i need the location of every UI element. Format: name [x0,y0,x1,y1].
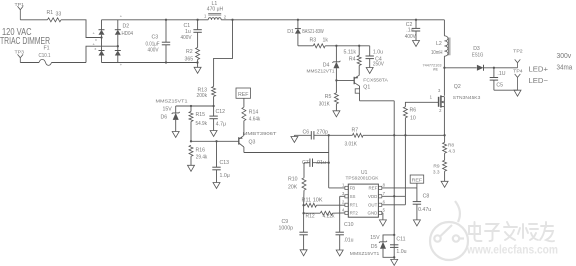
svg-text:HD04: HD04 [122,31,134,37]
ground C8 [413,220,420,226]
svg-text:F1: F1 [44,45,50,51]
svg-text:29.4k: 29.4k [196,155,208,161]
capacitor C6 270p [294,130,328,140]
svg-text:4.64k: 4.64k [249,117,261,123]
fuse F1 C10.1 [20,45,86,65]
svg-text:LED+: LED+ [529,65,549,74]
svg-text:R12: R12 [306,213,315,219]
zener D6 MMSZ15VT1 15V [156,98,189,131]
svg-text:10mH: 10mH [431,50,443,56]
svg-text:TRIAC DIMMER: TRIAC DIMMER [0,36,50,47]
wire FB vertical [328,135,330,188]
svg-text:D1: D1 [287,29,294,35]
svg-text:WE: WE [433,67,438,71]
svg-text:.01u: .01u [344,237,354,243]
ground R5 [333,111,340,117]
resistor R6 10 [403,102,438,121]
svg-text:RT2: RT2 [350,210,359,215]
watermark logo elecfans [430,201,468,260]
resistor R1 33 [47,10,62,22]
svg-text:C5: C5 [496,83,503,89]
net flag REF left [236,88,251,98]
capacitor C9 1000p [279,205,308,250]
transistor Q1 FCX558TA [336,75,388,101]
svg-text:400V: 400V [405,34,416,40]
svg-text:BAS21-83W: BAS21-83W [302,29,324,35]
ground R9 [441,181,448,187]
svg-text:3.01K: 3.01K [345,141,358,147]
ground C6 [291,135,298,142]
svg-text:Q2: Q2 [454,84,461,90]
svg-text:MMBT3906T: MMBT3906T [243,131,277,136]
ground C9 [300,250,307,256]
resistor R8 4.3 [443,135,456,160]
transistor Q3 MMBT3906T [239,131,277,153]
svg-text:x: x [95,47,97,51]
resistor R10 20K [288,163,306,206]
svg-text:D6: D6 [161,114,168,120]
capacitor C2 .1u 400V [405,20,420,41]
svg-text:C11: C11 [396,236,405,242]
label 120 VAC TRIAC DIMMER [0,27,50,47]
svg-text:MMSZ12VT1: MMSZ12VT1 [307,69,335,74]
svg-text:TPS92001DGK: TPS92001DGK [346,175,380,180]
svg-text:4.22k: 4.22k [323,214,335,220]
node rail 15V zener [176,105,215,107]
IC U1 TPS92001DGK [342,170,386,217]
svg-text:R1: R1 [47,10,54,16]
ground U1 GND [379,220,386,226]
svg-text:0.01μF: 0.01μF [146,41,160,47]
svg-text:200k: 200k [197,93,208,99]
svg-text:D3: D3 [473,46,480,52]
svg-text:300v: 300v [557,51,572,60]
test point TP1 [15,2,25,20]
svg-text:REF: REF [412,178,423,184]
wire VDD rail down to C11 [393,101,395,257]
svg-text:1k: 1k [323,37,329,43]
resistor R13 200k [197,87,216,107]
svg-text:R7: R7 [352,128,359,134]
test point TP2 [513,48,523,67]
zener D4 MMSZ12VT1 [307,46,341,82]
ground C2 [413,41,420,47]
resistor R16 29.4k [189,145,208,165]
capacitor C1 1u 400V [181,20,202,48]
wire FB to U1 [329,187,345,189]
svg-text:34ma: 34ma [557,62,574,71]
wire top rail corner down to L2 [443,20,445,36]
ground C11 [391,259,398,265]
svg-text:D4: D4 [323,63,330,69]
svg-text:SS: SS [350,194,356,199]
resistor R5 301K [319,80,339,110]
svg-text:15V: 15V [370,235,380,241]
svg-text:D2: D2 [123,23,130,29]
ground C4 [366,68,373,74]
inductor L2 10mH 744772103 WE [423,36,450,72]
svg-text:1000p: 1000p [279,226,294,232]
test point TP4 and ground [513,69,523,97]
diode D1 BAS21-83W [287,20,323,46]
inductor L1 470uH [204,1,227,20]
diode D3 ES1G [444,46,517,71]
svg-text:270p: 270p [317,130,329,136]
ground C12 [210,131,217,137]
capacitor C11 1.0u [390,236,407,259]
ground D6 [172,132,179,138]
svg-text:FB: FB [350,185,356,190]
svg-text:R5: R5 [325,94,332,100]
wire FB rail to CS node [328,134,446,136]
svg-text:C10: C10 [344,222,354,228]
svg-text:0.47u: 0.47u [418,207,431,213]
wire Q3 collector to FB node [244,152,329,154]
svg-text:MMSZ15VT1: MMSZ15VT1 [350,251,380,256]
capacitor C8 0.47u [413,188,432,220]
svg-text:1.0u: 1.0u [373,50,383,56]
svg-text:400V: 400V [148,48,159,54]
svg-text:C8: C8 [423,194,430,200]
svg-text:470 μH: 470 μH [207,6,224,12]
svg-text:20K: 20K [288,185,298,191]
svg-text:33: 33 [56,11,62,17]
svg-text:R9: R9 [433,164,439,170]
svg-text:REF: REF [238,92,249,98]
svg-text:R15: R15 [196,112,206,118]
resistor R2 365 [185,48,200,68]
svg-text:ES1G: ES1G [472,52,484,58]
svg-text:C3: C3 [152,35,159,41]
svg-text:C7: C7 [302,160,309,166]
label 300v 34ma [557,51,574,71]
svg-text:301K: 301K [319,101,330,107]
capacitor C7 .01u [302,159,329,167]
svg-text:R11 10K: R11 10K [302,197,324,203]
svg-text:1.0μ: 1.0μ [220,173,230,179]
svg-text:C12: C12 [216,109,226,115]
svg-text:15V: 15V [163,107,173,113]
wire GND pin to ground [382,213,383,220]
svg-text:MMSZ15VT1: MMSZ15VT1 [156,98,189,103]
svg-text:D5: D5 [371,244,378,250]
wire OUT line to gate resistor [382,118,406,205]
test point TP3 [15,49,25,62]
transistor Q2 STN3N45K3 [430,68,481,136]
wire Q1 collector to gate node [360,100,395,102]
svg-text:54.9k: 54.9k [196,121,208,127]
svg-text:Q3: Q3 [249,139,256,145]
resistor R14 4.64k [242,98,261,133]
capacitor C12 4.7u [209,106,226,131]
wire TP1 to R1 [20,19,47,21]
ground R2 [194,67,201,73]
svg-text:400V: 400V [181,35,192,41]
svg-text:FCX558TA: FCX558TA [363,77,388,83]
wire VDD line [382,195,406,197]
resistor R7 3.01K [329,128,395,148]
svg-text:OUT: OUT [368,202,378,207]
svg-text:R16: R16 [196,147,206,153]
svg-text:.1U: .1U [497,71,505,77]
bridge rectifier D2 HD04 [93,13,134,67]
wire REF pin to REF flag and C8 [382,183,417,188]
ground C10 [336,250,343,256]
svg-text:R6: R6 [410,108,417,114]
svg-text:1.0u: 1.0u [396,249,406,255]
svg-text:R10: R10 [288,176,298,182]
svg-text:C13: C13 [220,160,230,166]
svg-text:C6: C6 [303,130,310,136]
ground R16 [188,165,195,171]
svg-text:R2: R2 [186,49,193,55]
resistor R15 54.9k [189,106,207,141]
svg-text:LED−: LED− [529,76,549,85]
node rail Q3 base [190,140,239,142]
capacitor C10 .01u [336,196,354,250]
capacitor C13 1.0u [212,141,229,182]
wire bottom rail [102,61,199,63]
watermark text [466,222,558,257]
svg-text:VDD: VDD [368,194,377,199]
svg-text:10: 10 [410,115,416,121]
svg-text:TP4: TP4 [513,69,523,74]
capacitor C5 .1U [490,68,518,90]
zener D5 MMSZ15VT1 15V [350,235,394,257]
svg-text:REF: REF [369,185,378,190]
svg-text:5.11k: 5.11k [344,49,357,55]
resistor R4 5.11k [344,46,362,76]
svg-text:365: 365 [185,56,194,62]
svg-text:R4: R4 [349,57,356,63]
wire R1 to bridge AC1 [61,20,102,38]
svg-text:C10.1: C10.1 [39,53,51,59]
svg-text:www.elecfans.com: www.elecfans.com [466,245,558,257]
svg-text:x: x [95,38,97,42]
svg-text:TP2: TP2 [513,48,523,53]
label LED+ LED- [529,65,549,85]
wire step down to R13 [214,20,233,87]
svg-text:R3: R3 [310,37,317,43]
svg-text:GND: GND [368,210,378,215]
svg-text:Q1: Q1 [363,84,370,90]
svg-text:TP3: TP3 [15,49,25,54]
svg-text:R8: R8 [448,143,454,149]
svg-text:L2: L2 [436,41,442,47]
resistor R12 4.22k [302,211,344,219]
svg-text:STN3N45K3: STN3N45K3 [453,95,481,100]
svg-text:4.7μ: 4.7μ [216,121,226,127]
svg-text:.01u: .01u [316,160,327,166]
resistor R11 10K [302,197,345,207]
svg-text:R14: R14 [249,109,259,115]
capacitor C4 1.0u 250V [366,46,385,68]
svg-text:3.3: 3.3 [433,170,440,176]
wire TP3 to bridge AC2 [86,46,118,62]
svg-text:250V: 250V [373,62,384,68]
resistor R9 3.3 [433,160,447,181]
wire top rail bridge to L1 [102,19,209,21]
svg-text:C9: C9 [282,219,289,225]
capacitor C3 0.01uF 400V [146,20,171,63]
wire L1 to top right corner [221,19,444,21]
net flag REF right [410,175,424,184]
svg-text:4.3: 4.3 [448,149,455,155]
svg-text:RT1: RT1 [350,202,359,207]
resistor R3 1k [310,37,370,48]
ground C13 [213,183,220,189]
